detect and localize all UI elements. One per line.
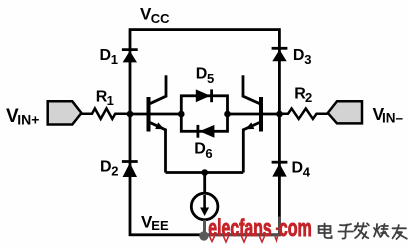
svg-text:IN+: IN+ (17, 111, 39, 127)
svg-text:elecfans: elecfans (208, 216, 271, 242)
svg-text:D: D (100, 159, 112, 176)
svg-text:D: D (196, 66, 208, 83)
svg-text:6: 6 (205, 146, 212, 161)
svg-text:D: D (100, 47, 112, 64)
svg-text:com: com (279, 216, 312, 242)
svg-text:D: D (194, 141, 206, 158)
svg-text:4: 4 (303, 165, 311, 180)
svg-text:CC: CC (151, 11, 170, 26)
svg-text:5: 5 (207, 71, 214, 86)
svg-text:1: 1 (107, 93, 114, 108)
svg-text:1: 1 (111, 52, 118, 67)
svg-text:2: 2 (111, 164, 118, 179)
svg-text:IN–: IN– (382, 111, 404, 126)
svg-text:EE: EE (151, 218, 169, 233)
svg-text:D: D (293, 47, 305, 64)
svg-text:2: 2 (305, 90, 312, 105)
svg-text:3: 3 (304, 52, 311, 67)
svg-text:D: D (292, 160, 304, 177)
